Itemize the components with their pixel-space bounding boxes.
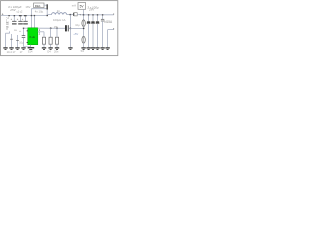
background xyxy=(0,0,121,58)
wire: module output top xyxy=(38,27,65,29)
wire: module pin 2 xyxy=(33,16,35,28)
capacitor C8 xyxy=(96,14,100,47)
wire: netbox pin down xyxy=(83,9,85,20)
svg-text:mA: mA xyxy=(72,3,76,7)
resistor R2 xyxy=(49,28,52,47)
module left pin marks xyxy=(27,29,28,32)
resistor R3 xyxy=(55,28,58,47)
wire: left input rail xyxy=(1,15,47,17)
capacitor C6 xyxy=(87,14,91,47)
ground C7 xyxy=(91,47,95,48)
capacitor C9 xyxy=(101,14,104,47)
left connector pins xyxy=(6,31,19,47)
ground 2 xyxy=(9,47,13,48)
ground 3 xyxy=(15,47,19,48)
svg-text:RE1: RE1 xyxy=(35,4,41,8)
wire: module output second xyxy=(38,31,44,33)
svg-text:X+E: X+E xyxy=(29,35,35,39)
wire: riser to upper branch xyxy=(30,9,32,28)
svg-text:16V: 16V xyxy=(25,5,30,9)
svg-text:N15A: N15A xyxy=(104,20,113,24)
wire: output rail right xyxy=(84,14,114,16)
capacitor C3 xyxy=(22,15,28,24)
node dots xyxy=(47,4,48,9)
svg-text:100µH 1A: 100µH 1A xyxy=(53,18,66,22)
svg-text:7...35 V=: 7...35 V= xyxy=(5,17,9,30)
svg-text:+5V: +5V xyxy=(73,32,78,36)
svg-text:10µ: 10µ xyxy=(75,24,80,27)
fuse F3 oval xyxy=(82,36,85,43)
net label box 5V xyxy=(78,3,86,10)
svg-text:10µ: 10µ xyxy=(19,41,24,44)
svg-text:10-4 17: 10-4 17 xyxy=(7,50,16,54)
wire: upper branch horizontal xyxy=(31,8,47,10)
svg-text:15k: 15k xyxy=(54,25,59,29)
resistor R1 xyxy=(42,32,45,47)
border frame xyxy=(1,1,118,56)
capacitor C1 xyxy=(11,15,17,24)
wire: vertical through mid cap down to ground xyxy=(69,15,71,48)
svg-text:2n: 2n xyxy=(57,9,61,13)
ground C6 xyxy=(86,47,90,48)
wire: box output xyxy=(44,4,47,6)
fuse F2 oval xyxy=(82,20,85,27)
capacitor C7 xyxy=(91,14,95,47)
ground C9 xyxy=(100,47,104,48)
svg-text:20n: 20n xyxy=(54,50,59,54)
diode D1 xyxy=(71,13,83,16)
node dot coil/right xyxy=(70,14,72,15)
svg-text:4x 10µ: 4x 10µ xyxy=(35,10,44,14)
right stub wire xyxy=(108,28,114,47)
svg-text:D4: D4 xyxy=(47,50,51,54)
svg-text:25V: 25V xyxy=(9,8,16,12)
junction dot rail left xyxy=(8,15,9,16)
ground module wide xyxy=(28,47,35,48)
ground C8 xyxy=(95,47,99,48)
capacitor C2 xyxy=(17,15,23,24)
component box F1 xyxy=(34,3,44,8)
capacitor C5 horizontal electrolytic xyxy=(65,25,84,31)
ground symbols row xyxy=(3,47,110,50)
svg-text:c1 c2: c1 c2 xyxy=(17,10,23,13)
ground mid xyxy=(68,47,72,48)
ground right xyxy=(105,47,109,48)
capacitor C4 (left of module) xyxy=(19,28,27,47)
ground 4 xyxy=(21,47,25,48)
ground R2 xyxy=(48,47,52,48)
svg-text:25V: 25V xyxy=(88,8,95,12)
inductor L1 xyxy=(47,13,70,15)
green module IC1 xyxy=(28,28,38,45)
ground fuse xyxy=(81,47,85,48)
svg-text:+: + xyxy=(79,12,81,16)
ground 1 xyxy=(3,47,7,48)
wire: node riser xyxy=(46,5,48,15)
ground R1 xyxy=(42,47,46,48)
svg-text:+: + xyxy=(2,13,4,17)
module ground lead xyxy=(30,45,32,47)
svg-text:S14: S14 xyxy=(28,49,33,53)
ground R3 xyxy=(55,47,59,48)
